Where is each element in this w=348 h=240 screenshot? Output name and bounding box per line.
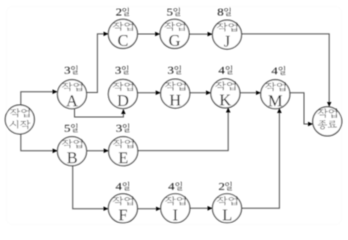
duration label 4일 above M — [272, 66, 286, 75]
node 작업 E — [109, 137, 138, 166]
duration label 4일 above K — [219, 65, 233, 74]
wire C to G — [137, 33, 159, 35]
wire H to K — [190, 92, 211, 94]
duration label 2일 above L — [219, 182, 232, 191]
duration label 3일 above A — [65, 65, 78, 74]
wire K to M — [240, 92, 261, 94]
wire M to end node — [290, 93, 313, 124]
node 작업 D — [108, 79, 137, 108]
duration label 4일 above F — [116, 182, 130, 191]
wire A to C — [87, 34, 109, 93]
node 작업 M — [261, 80, 290, 109]
node 작업 F — [108, 194, 137, 223]
node 작업 H — [161, 79, 190, 108]
node 작업 J — [212, 20, 241, 49]
node 작업 B — [57, 137, 86, 166]
node 작업 L — [212, 194, 241, 223]
wire start to B — [21, 134, 57, 151]
end node 작업 종료 — [313, 107, 342, 136]
node 작업 I — [161, 194, 190, 223]
duration label 3일 above E — [116, 123, 129, 132]
wire L to M — [242, 108, 280, 208]
duration label 5일 above B — [65, 123, 78, 132]
duration label 4일 above I — [168, 182, 182, 191]
wire B to F — [73, 166, 108, 209]
duration label 3일 above H — [168, 65, 181, 74]
wire G to J — [189, 33, 212, 35]
wire F to I — [137, 208, 160, 210]
start node 작업 시작 — [5, 105, 34, 134]
wire A to D — [75, 108, 124, 117]
duration label 3일 above D — [115, 65, 128, 74]
wire J to end node — [242, 34, 330, 107]
duration label 8일 above J — [218, 7, 231, 16]
duration label 2일 above C — [116, 7, 129, 16]
wire I to L — [190, 207, 212, 209]
duration label 5일 above G — [167, 7, 180, 16]
wire D to H — [137, 92, 160, 94]
wire start to A — [21, 92, 57, 105]
wire E to K — [138, 108, 229, 151]
node 작업 A — [57, 80, 86, 109]
wire B to E — [87, 150, 109, 152]
node 작업 C — [108, 19, 137, 48]
node 작업 K — [211, 79, 240, 108]
node 작업 G — [160, 19, 189, 48]
